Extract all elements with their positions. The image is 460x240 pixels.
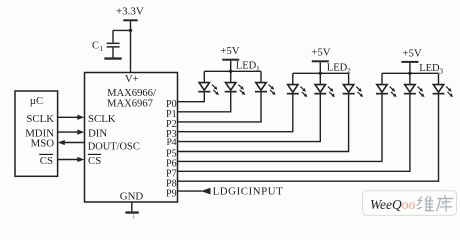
svg-text:1: 1: [100, 44, 104, 53]
svg-text:+5V: +5V: [220, 45, 239, 57]
svg-text:DOUT/OSC: DOUT/OSC: [88, 142, 140, 153]
svg-text:C: C: [92, 41, 99, 52]
svg-text:MAX6967: MAX6967: [107, 98, 153, 109]
svg-text:LED: LED: [419, 63, 440, 74]
svg-text:µC: µC: [30, 95, 43, 107]
svg-text:SCLK: SCLK: [88, 113, 116, 125]
svg-text:+5V: +5V: [311, 47, 330, 59]
svg-text:GND: GND: [120, 191, 144, 203]
svg-text:SCLK: SCLK: [26, 113, 54, 125]
svg-text:3: 3: [439, 66, 443, 75]
svg-text:P4: P4: [166, 137, 176, 148]
svg-text:CS: CS: [40, 155, 53, 167]
svg-text:LED: LED: [236, 61, 257, 72]
svg-text:CS: CS: [88, 155, 101, 167]
svg-text:MSO: MSO: [31, 138, 55, 150]
svg-text:+3.3V: +3.3V: [116, 6, 144, 18]
svg-text:+5V: +5V: [402, 47, 421, 59]
svg-text:DIN: DIN: [88, 128, 107, 140]
svg-text:P9: P9: [166, 188, 177, 199]
svg-text:WeeQoo: WeeQoo: [370, 197, 416, 212]
svg-text:LED: LED: [327, 63, 348, 74]
svg-text:V+: V+: [125, 73, 139, 85]
svg-text:LDGICINPUT: LDGICINPUT: [213, 186, 284, 198]
